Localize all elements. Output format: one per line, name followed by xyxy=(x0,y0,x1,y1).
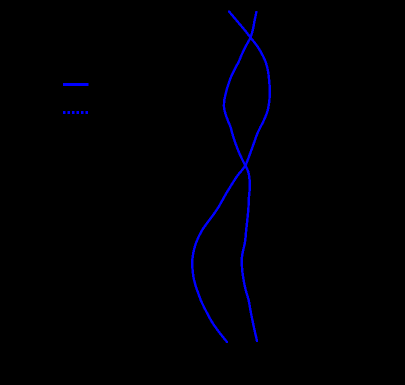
legend dashed swatch xyxy=(63,111,89,114)
curve 1 solid xyxy=(192,12,270,343)
curve 2 solid xyxy=(224,12,257,341)
legend solid swatch xyxy=(63,83,89,86)
